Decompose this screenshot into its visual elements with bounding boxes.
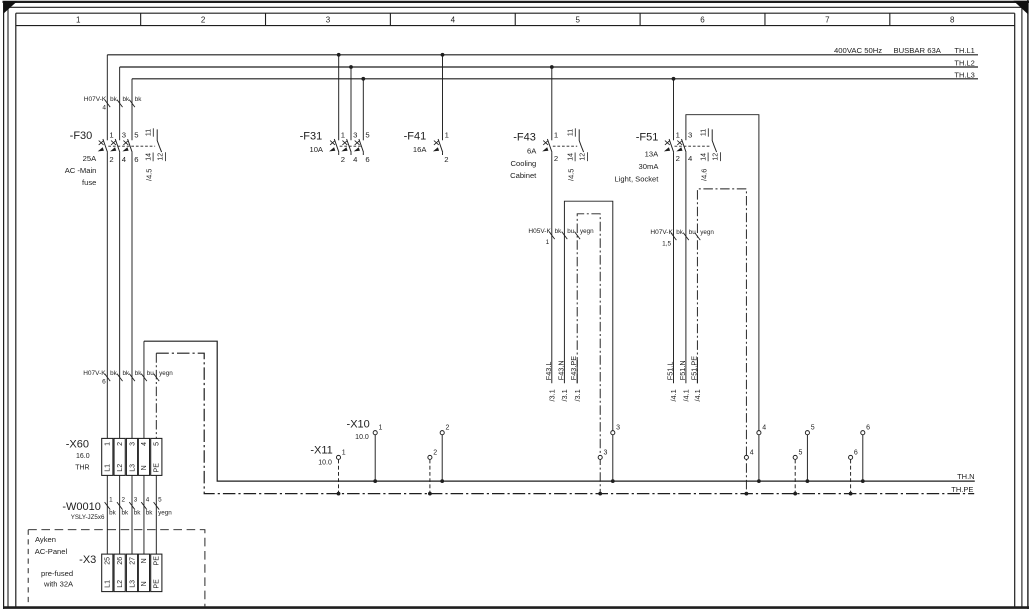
svg-text:1: 1	[445, 130, 449, 139]
X3 terminal PE (PE)	[151, 554, 162, 592]
busbar TH.L1 (400VAC 50Hz, BUSBAR 63A)	[107, 54, 978, 56]
wire TH.PE loop down to X60 terminal 5 (dash-dot)	[155, 353, 157, 438]
svg-text:6A: 6A	[527, 146, 537, 155]
X3 terminal N (N)	[138, 554, 149, 592]
svg-text:Cabinet: Cabinet	[510, 171, 537, 180]
svg-text:2: 2	[201, 16, 206, 25]
svg-text:2: 2	[446, 425, 450, 432]
terminal X10:4 on TH.N	[757, 431, 761, 435]
auxiliary changeover contact (pins 11/14/12), cross-ref /4.6	[712, 129, 716, 152]
svg-text:1: 1	[341, 130, 345, 139]
F51 mechanical linkage to aux contact	[675, 145, 711, 147]
svg-text:4: 4	[122, 155, 127, 164]
auxiliary changeover contact (pins 11/14/12), cross-ref /4.5	[157, 129, 161, 152]
F31 pole 3 contact (pins 5-6)	[359, 139, 364, 152]
W0010 conductor 4 (bk) wire X60 to X3	[143, 475, 145, 554]
enclosure Ayken AC-Panel, pre-fused with 32A (dashed boundary)	[28, 530, 205, 607]
svg-text:11: 11	[701, 129, 708, 136]
svg-text:Ayken: Ayken	[35, 535, 56, 544]
svg-text:1: 1	[76, 16, 81, 25]
svg-text:14: 14	[700, 153, 707, 161]
svg-text:/4.6: /4.6	[700, 169, 709, 181]
svg-text:PE: PE	[154, 579, 161, 589]
F30 mechanical linkage to auxiliary contact	[108, 145, 155, 147]
terminal X11:4 on TH.PE	[744, 455, 748, 459]
svg-text:-X11: -X11	[310, 444, 332, 456]
svg-text:4: 4	[146, 496, 150, 503]
svg-text:4: 4	[353, 155, 358, 164]
wire TH.L2 to F43 pin 1	[551, 67, 553, 140]
wire TH.L1 to F41 pin 1	[442, 55, 444, 141]
svg-text:4: 4	[141, 442, 148, 446]
junction F31 pole 1 on TH.L1	[337, 53, 341, 57]
svg-text:6: 6	[102, 379, 106, 386]
junction F41 on TH.L1	[441, 53, 445, 57]
F30 pole 1 contact (pins 1-2)	[103, 139, 108, 152]
terminal X10:1 on TH.N	[374, 435, 376, 481]
F41 output stub	[442, 152, 444, 155]
svg-text:L2: L2	[117, 464, 124, 472]
terminal X11:5 on TH.PE	[794, 460, 796, 494]
svg-text:1: 1	[676, 130, 680, 139]
svg-text:-F41: -F41	[404, 131, 427, 143]
svg-text:26: 26	[117, 557, 124, 565]
F30 pole 3 contact (pins 5-6)	[128, 139, 133, 152]
svg-text:3: 3	[129, 442, 136, 446]
svg-text:12: 12	[713, 153, 720, 161]
X60 terminal 1 (L1)	[102, 438, 113, 475]
svg-text:/4.1: /4.1	[669, 389, 678, 401]
wire F30 pin 2 to X60 terminal 1 (L1)	[106, 152, 108, 438]
svg-text:10.0: 10.0	[355, 434, 369, 441]
wire TH.N loop down to X60 terminal 4	[143, 341, 145, 438]
svg-text:N: N	[141, 558, 148, 563]
F31 output stubs	[338, 152, 340, 155]
svg-text:N: N	[141, 465, 148, 470]
svg-text:yegn: yegn	[700, 229, 714, 236]
svg-text:YSLY-JZ5x6: YSLY-JZ5x6	[71, 514, 105, 521]
svg-text:TH.L1: TH.L1	[954, 46, 974, 55]
svg-text:F51.PE: F51.PE	[689, 356, 698, 380]
svg-text:/4.1: /4.1	[693, 389, 702, 401]
terminal X10:6 on TH.N	[862, 435, 864, 481]
auxiliary changeover contact (pins 11/14/12), cross-ref /4.5	[579, 129, 583, 152]
F31 pole 1 contact (pins 1-2)	[334, 139, 339, 152]
svg-text:bk: bk	[110, 96, 118, 103]
svg-text:3: 3	[604, 449, 608, 456]
svg-text:TH.N: TH.N	[957, 472, 975, 481]
W0010 conductor 2 (bk) wire X60 to X3	[119, 475, 121, 554]
terminal X10:2 on TH.N	[441, 435, 443, 481]
F51 pole 1 contact (pins 1-2)	[669, 139, 674, 152]
wire TH.L3 to F51 pin 1	[673, 79, 675, 141]
svg-text:BUSBAR 63A: BUSBAR 63A	[894, 46, 942, 55]
svg-text:/3.1: /3.1	[573, 389, 582, 401]
svg-text:2: 2	[341, 155, 345, 164]
svg-text:27: 27	[129, 557, 136, 565]
svg-text:/4.1: /4.1	[682, 389, 691, 401]
svg-text:7: 7	[825, 16, 830, 25]
svg-text:5: 5	[811, 425, 815, 432]
svg-text:L1: L1	[105, 464, 112, 472]
svg-text:14: 14	[145, 153, 152, 161]
svg-text:Cooling: Cooling	[511, 159, 537, 168]
wire TH.L2 drop to F30 pole 2	[119, 67, 121, 140]
F41 contact (pins 1-2)	[438, 139, 443, 152]
F43 mechanical linkage to aux contact	[553, 145, 577, 147]
svg-text:H07V-K: H07V-K	[650, 229, 673, 236]
junction F31 pole 3 on TH.L3	[361, 77, 365, 81]
svg-text:Light, Socket: Light, Socket	[614, 175, 659, 184]
svg-text:bk: bk	[676, 229, 684, 236]
svg-text:30mA: 30mA	[639, 162, 660, 171]
svg-text:3: 3	[122, 130, 126, 139]
svg-text:AC-Panel: AC-Panel	[35, 547, 68, 556]
terminal X11:1 on TH.PE	[338, 460, 340, 494]
svg-text:4: 4	[762, 425, 766, 432]
junction F51 on TH.L3	[672, 77, 676, 81]
svg-text:H07V-K: H07V-K	[83, 370, 106, 377]
svg-text:4: 4	[688, 154, 693, 163]
busbar TH.N (neutral)	[144, 341, 975, 481]
svg-text:bk: bk	[135, 96, 143, 103]
wire F43 neutral riser from TH.N loop	[564, 201, 612, 481]
svg-text:/3.1: /3.1	[560, 389, 569, 401]
svg-text:L2: L2	[117, 580, 124, 588]
svg-text:11: 11	[568, 129, 575, 136]
terminal X11:3 on TH.PE	[598, 455, 602, 459]
svg-text:4: 4	[102, 105, 106, 112]
svg-text:2: 2	[109, 155, 113, 164]
svg-text:F43.PE: F43.PE	[569, 356, 578, 380]
svg-text:12: 12	[580, 153, 587, 161]
svg-text:1: 1	[546, 239, 550, 246]
wire F51 neutral loop from TH.N to pin 3	[686, 115, 759, 481]
svg-text:AC -Main: AC -Main	[65, 166, 97, 175]
X3 terminal 25 (L1)	[102, 554, 113, 592]
svg-text:3: 3	[134, 496, 138, 503]
svg-text:1: 1	[554, 130, 558, 139]
F31 mechanical linkage	[340, 145, 363, 147]
wire F43 pin 2 down (F43.L)	[551, 152, 553, 383]
svg-text:F43.N: F43.N	[556, 360, 565, 380]
svg-text:N: N	[141, 581, 148, 586]
F43 contact (pins 1-2)	[547, 139, 552, 152]
svg-text:5: 5	[134, 130, 138, 139]
svg-text:16A: 16A	[413, 145, 427, 154]
wire F51 PE riser from TH.PE loop (green/yellow)	[697, 189, 746, 494]
svg-text:F51.L: F51.L	[666, 362, 675, 381]
svg-text:bu: bu	[147, 370, 155, 377]
svg-text:4: 4	[451, 16, 456, 25]
busbar TH.L2	[120, 66, 978, 68]
F30 pole 2 contact (pins 3-4)	[115, 139, 120, 152]
F31 pole 2 contact (pins 3-4)	[347, 139, 352, 152]
svg-text:-F51: -F51	[636, 132, 659, 144]
svg-text:3: 3	[688, 130, 692, 139]
svg-text:-X3: -X3	[79, 554, 96, 566]
busbar TH.L3	[132, 78, 978, 80]
svg-text:/3.1: /3.1	[547, 389, 556, 401]
svg-text:4: 4	[750, 449, 754, 456]
svg-text:5: 5	[365, 130, 369, 139]
svg-text:THR: THR	[75, 465, 89, 472]
svg-text:1: 1	[379, 425, 383, 432]
svg-text:L1: L1	[105, 580, 112, 588]
svg-text:bk: bk	[122, 96, 130, 103]
svg-text:6: 6	[854, 449, 858, 456]
wire TH.L3 to F31 pin 5	[362, 79, 364, 141]
terminal X11:6 on TH.PE	[850, 460, 852, 494]
svg-text:3: 3	[326, 16, 331, 25]
terminal X11:2 on TH.PE	[429, 460, 431, 494]
svg-text:-F31: -F31	[300, 131, 323, 143]
svg-text:bu: bu	[567, 228, 575, 235]
svg-text:-X60: -X60	[66, 438, 89, 450]
svg-text:-F43: -F43	[513, 132, 536, 144]
svg-text:2: 2	[121, 496, 125, 503]
svg-text:6: 6	[134, 155, 138, 164]
X60 terminal 5 (PE)	[151, 438, 162, 475]
junction F31 pole 2 on TH.L2	[349, 65, 353, 69]
X3 terminal 26 (L2)	[114, 554, 125, 592]
wire F51 pin 4 down (F51.N)	[685, 152, 687, 383]
svg-text:3: 3	[616, 425, 620, 432]
svg-text:25A: 25A	[83, 154, 97, 163]
svg-text:with 32A: with 32A	[43, 579, 74, 588]
wire TH.L3 drop to F30 pole 3	[131, 79, 133, 141]
X60 terminal 2 (L2)	[114, 438, 125, 475]
W0010 conductor 3 (bk) wire X60 to X3	[131, 475, 133, 554]
svg-text:2: 2	[117, 442, 124, 446]
svg-text:TH.L3: TH.L3	[954, 71, 974, 80]
X60 terminal 3 (L3)	[126, 438, 137, 475]
svg-text:8: 8	[950, 16, 955, 25]
X60 terminal 4 (N)	[138, 438, 149, 475]
svg-text:1: 1	[342, 449, 346, 456]
F51 pole 2 contact (pins 3-4)	[682, 139, 687, 152]
svg-text:F43.L: F43.L	[544, 362, 553, 381]
wire F51 pin 2 down (F51.L)	[673, 152, 675, 383]
svg-text:TH.L2: TH.L2	[954, 58, 974, 67]
svg-text:TH.PE: TH.PE	[951, 485, 973, 494]
X3 terminal 27 (L3)	[126, 554, 137, 592]
terminal X10:3 on TH.N	[611, 431, 615, 435]
wire TH.L1 drop to F30 pole 1	[106, 55, 108, 141]
wire TH.L2 to F31 pin 3	[350, 67, 352, 140]
svg-text:-X10: -X10	[347, 418, 370, 430]
svg-text:1: 1	[105, 442, 112, 446]
svg-text:5: 5	[799, 449, 803, 456]
svg-text:F51.N: F51.N	[678, 360, 687, 380]
W0010 conductor 1 (bk) wire X60 to X3	[106, 475, 108, 554]
svg-text:6: 6	[365, 155, 369, 164]
svg-text:1,5: 1,5	[662, 240, 671, 247]
svg-text:3: 3	[353, 130, 357, 139]
svg-text:1: 1	[109, 130, 113, 139]
svg-text:6: 6	[866, 425, 870, 432]
svg-text:L3: L3	[129, 580, 136, 588]
svg-text:fuse: fuse	[82, 178, 96, 187]
wire F30 pin 4 to X60 terminal 2 (L2)	[119, 152, 121, 438]
svg-text:bk: bk	[109, 509, 117, 516]
svg-text:11: 11	[146, 129, 153, 136]
svg-text:5: 5	[575, 16, 580, 25]
wire TH.L1 to F31 pin 1	[338, 55, 340, 141]
busbar TH.PE (protective earth, dash-dot)	[156, 353, 974, 493]
svg-text:L3: L3	[129, 464, 136, 472]
svg-text:H07V-K: H07V-K	[84, 96, 107, 103]
svg-text:16.0: 16.0	[76, 453, 90, 460]
svg-text:yegn: yegn	[158, 509, 172, 516]
wire F43 PE riser from TH.PE loop (green/yellow)	[577, 214, 600, 494]
svg-text:10.0: 10.0	[318, 460, 332, 467]
svg-text:2: 2	[676, 154, 680, 163]
wire destination label F51.PE to /4.1	[696, 360, 698, 383]
svg-text:/4.5: /4.5	[145, 169, 154, 181]
svg-text:400VAC 50Hz: 400VAC 50Hz	[834, 46, 882, 55]
svg-text:-W0010: -W0010	[62, 501, 101, 513]
svg-text:2: 2	[433, 449, 437, 456]
svg-text:-F30: -F30	[70, 130, 93, 142]
svg-text:10A: 10A	[309, 145, 323, 154]
W0010 conductor 5 (yegn) wire X60 to X3	[155, 475, 157, 554]
svg-text:yegn: yegn	[580, 228, 594, 235]
svg-text:PE: PE	[154, 556, 161, 566]
svg-text:1: 1	[109, 496, 113, 503]
svg-text:yegn: yegn	[159, 370, 173, 377]
svg-text:bk: bk	[134, 509, 142, 516]
svg-text:bk: bk	[121, 509, 129, 516]
svg-text:12: 12	[158, 153, 165, 161]
svg-text:/4.5: /4.5	[567, 169, 576, 181]
svg-text:pre-fused: pre-fused	[41, 569, 73, 578]
svg-text:13A: 13A	[645, 150, 659, 159]
svg-text:25: 25	[105, 557, 112, 565]
svg-text:bk: bk	[555, 228, 563, 235]
svg-text:H05V-K: H05V-K	[528, 228, 551, 235]
terminal X10:5 on TH.N	[806, 435, 808, 481]
wire F30 pin 6 to X60 terminal 3 (L3)	[131, 152, 133, 438]
svg-text:5: 5	[158, 496, 162, 503]
svg-text:bk: bk	[110, 370, 118, 377]
svg-text:5: 5	[154, 442, 161, 446]
svg-text:bk: bk	[146, 509, 154, 516]
svg-text:6: 6	[700, 16, 705, 25]
wire destination label F43.PE to /3.1	[576, 360, 578, 383]
svg-text:14: 14	[567, 153, 574, 161]
svg-text:2: 2	[554, 154, 558, 163]
svg-text:2: 2	[444, 155, 448, 164]
junction F43 on TH.L2	[550, 65, 554, 69]
svg-text:bk: bk	[122, 370, 130, 377]
svg-text:PE: PE	[154, 463, 161, 473]
